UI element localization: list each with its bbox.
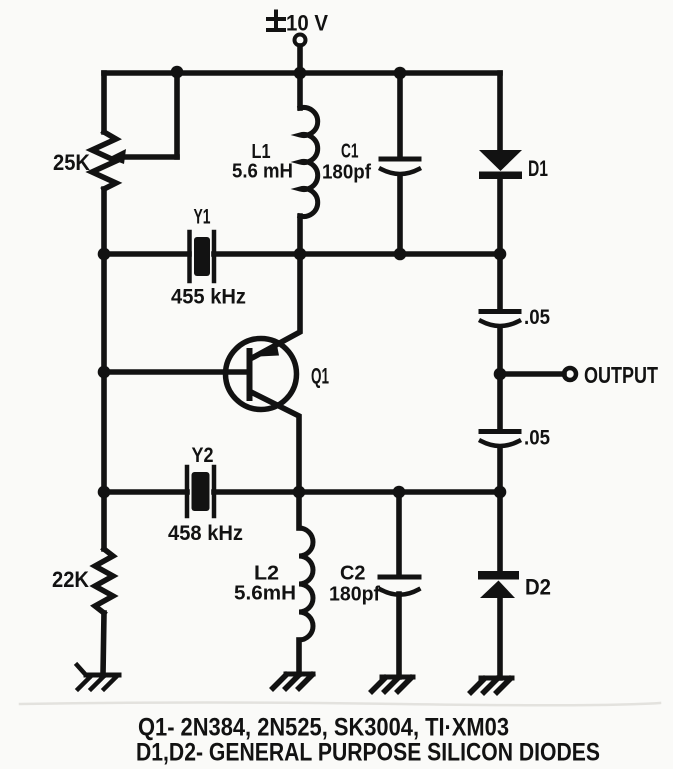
wiper arrow bbox=[108, 149, 126, 164]
wire L2 bottom bbox=[296, 640, 302, 674]
junction dot row2 L1 bbox=[294, 248, 307, 261]
svg-text:.05: .05 bbox=[524, 306, 550, 329]
capacitor .05 lower bbox=[481, 432, 519, 447]
terminal +/-10V bbox=[295, 35, 306, 74]
capacitor C1 bbox=[381, 159, 419, 174]
svg-text:Q1- 2N384, 2N525, SK3004, TI·X: Q1- 2N384, 2N525, SK3004, TI·XM03 bbox=[138, 714, 509, 742]
svg-text:25K: 25K bbox=[53, 150, 90, 175]
svg-text:Y2: Y2 bbox=[192, 444, 214, 467]
diode D2 bbox=[478, 571, 519, 598]
potentiometer 25K bbox=[92, 132, 116, 189]
ground under C2 bbox=[372, 677, 413, 691]
inductor L1 bbox=[300, 108, 318, 217]
wire right rail to upper cap bbox=[497, 254, 503, 311]
svg-text:L2: L2 bbox=[254, 563, 279, 585]
inductor L2 bbox=[299, 528, 313, 640]
ground under 22K bbox=[77, 665, 119, 689]
transistor Q1 bbox=[226, 339, 297, 410]
wire L1 bottom bbox=[297, 216, 303, 254]
wire C2 bottom bbox=[396, 594, 402, 677]
svg-text:OUTPUT: OUTPUT bbox=[584, 362, 658, 388]
wire row3 left bbox=[104, 489, 187, 495]
wire D1 to row2 bbox=[497, 179, 503, 254]
diode D1 bbox=[479, 150, 522, 179]
wire C1 top bbox=[397, 73, 403, 158]
wire output to lower cap bbox=[497, 374, 503, 431]
junction dot row3 C2 bbox=[393, 486, 406, 499]
wire row2 left bbox=[104, 251, 189, 257]
wire output stub bbox=[500, 371, 564, 377]
svg-text:5.6 mH: 5.6 mH bbox=[232, 161, 293, 183]
junction dot left row2 bbox=[98, 248, 111, 261]
scan artifact faint line bbox=[20, 703, 660, 706]
junction dot left row3 bbox=[98, 486, 111, 499]
junction dot output bbox=[494, 368, 507, 381]
junction dot left base bbox=[98, 366, 111, 379]
capacitor C2 bbox=[380, 577, 419, 595]
svg-text:455 kHz: 455 kHz bbox=[171, 286, 246, 309]
wire right rail top bbox=[497, 73, 503, 151]
wire D2 top bbox=[497, 492, 503, 570]
wire L1 top bbox=[297, 73, 303, 108]
wire base bbox=[104, 369, 247, 375]
junction dot row2 right bbox=[494, 248, 507, 261]
wire left rail lower bbox=[103, 613, 104, 675]
wire left rail upper bbox=[101, 73, 107, 132]
svg-text:C1: C1 bbox=[341, 141, 359, 163]
ground under L2 bbox=[273, 674, 313, 688]
wire collector Q1 bbox=[251, 392, 299, 492]
wire row3 right bbox=[214, 489, 500, 495]
svg-text:180pf: 180pf bbox=[329, 584, 380, 606]
svg-text:C2: C2 bbox=[340, 563, 366, 585]
svg-text:D1,D2- GENERAL PURPOSE SILICON: D1,D2- GENERAL PURPOSE SILICON DIODES bbox=[136, 739, 600, 767]
svg-text:Y1: Y1 bbox=[194, 206, 211, 229]
svg-text:5.6mH: 5.6mH bbox=[234, 583, 296, 605]
svg-text:D2: D2 bbox=[525, 575, 551, 600]
svg-text:180pf: 180pf bbox=[322, 162, 371, 184]
wire upper cap to output bbox=[497, 328, 503, 374]
junction dot top pot bbox=[171, 66, 184, 79]
label +/-10 V bbox=[268, 12, 284, 31]
wire C2 top bbox=[396, 492, 402, 576]
svg-text:Q1: Q1 bbox=[311, 364, 329, 389]
wire top rail bbox=[104, 70, 500, 76]
svg-text:.05: .05 bbox=[524, 427, 550, 450]
wire row2 right bbox=[214, 251, 500, 257]
wire lower cap to row3 bbox=[497, 448, 503, 492]
junction dot row3 right bbox=[494, 486, 507, 499]
junction dot top L1 bbox=[294, 67, 307, 80]
resistor 22K bbox=[95, 549, 113, 613]
emitter arrow Q1 bbox=[259, 343, 280, 357]
wire left rail middle bbox=[101, 189, 107, 549]
svg-text:22K: 22K bbox=[52, 567, 89, 592]
wire emitter Q1 bbox=[252, 254, 300, 358]
wire C1 bottom bbox=[397, 176, 403, 254]
wire L2 top bbox=[296, 492, 302, 528]
junction dot top C1 bbox=[394, 67, 407, 80]
terminal OUTPUT bbox=[564, 368, 576, 380]
crystal Y1 bbox=[190, 232, 215, 281]
ground under D2 bbox=[471, 678, 512, 692]
svg-text:10 V: 10 V bbox=[286, 11, 328, 36]
capacitor .05 upper bbox=[481, 312, 519, 327]
svg-text:458 kHz: 458 kHz bbox=[168, 522, 243, 545]
junction dot row2 C1 bbox=[394, 248, 407, 261]
svg-text:D1: D1 bbox=[528, 156, 548, 181]
wiper wire bbox=[124, 73, 177, 157]
crystal Y2 bbox=[187, 467, 214, 516]
junction dot row3 L2 bbox=[293, 486, 306, 499]
wire D2 bottom bbox=[497, 598, 503, 678]
